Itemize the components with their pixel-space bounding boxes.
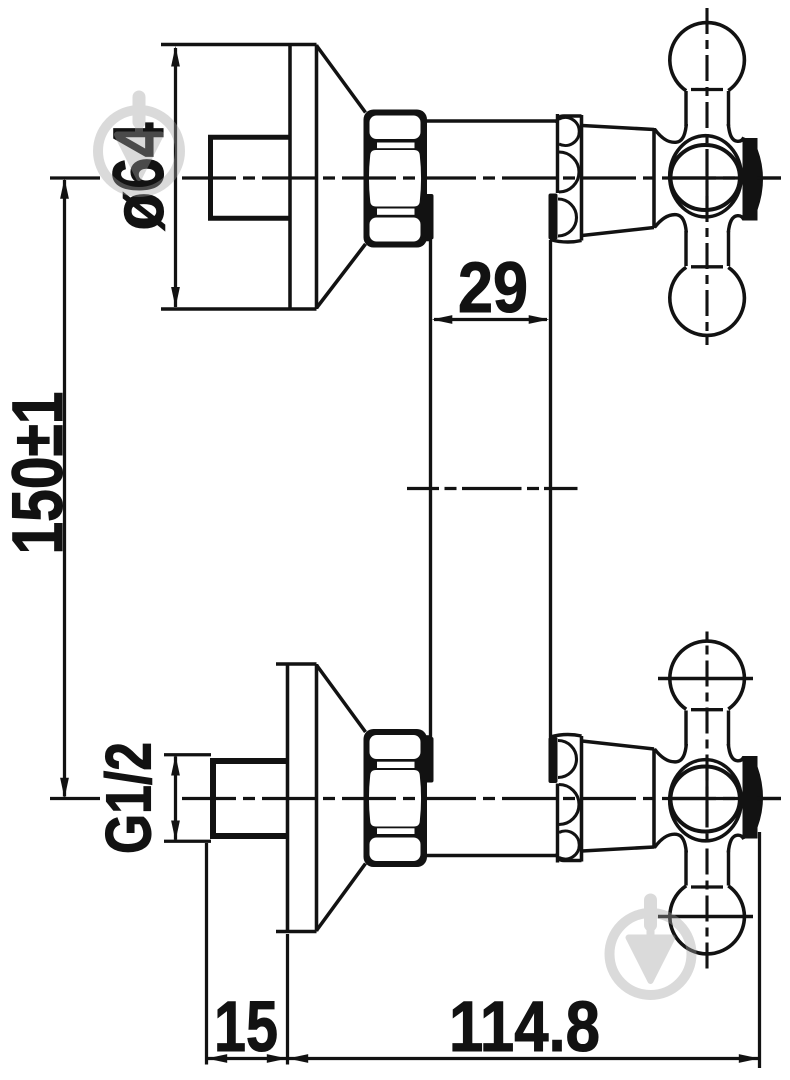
riser mid centerline dash 3 [544, 487, 578, 490]
top escutcheon front vertical [315, 45, 319, 310]
dim 15 extension line left [205, 843, 208, 1065]
dim 150 arrow up [60, 178, 69, 199]
top inlet pipe left edge [208, 137, 213, 218]
wide ball tick top (bottom handle) [658, 677, 753, 681]
top escutcheon inner vertical [288, 45, 292, 310]
dim 150 extension tick bottom [50, 797, 100, 800]
svg-text:114.8: 114.8 [449, 988, 600, 1067]
dim 114.8 extension line right [758, 832, 761, 1068]
watermark logo top-left [98, 91, 180, 193]
dim 150 dimension line [63, 180, 66, 797]
dim 114.8 arrow left [288, 1054, 309, 1063]
dim 29 arrow right [529, 315, 550, 324]
top assembly centerline dash-dot [182, 176, 781, 179]
top escutcheon cone lower slant [317, 244, 366, 308]
dim G1/2 arrow up [171, 755, 180, 776]
dim 15 arrow left [207, 1054, 228, 1063]
bottom assembly centerline dash-dot [182, 797, 781, 800]
riser mid centerline dash 1 [407, 487, 439, 490]
dim o64 arrow down [171, 287, 180, 308]
riser left edge [429, 240, 432, 738]
valve assembly top [364, 8, 764, 345]
top escutcheon top edge [161, 43, 317, 47]
dim 29 dimension line [434, 318, 547, 321]
dim G1/2 arrow down [171, 821, 180, 842]
G1/2 pipe left edge [210, 759, 216, 839]
bottom escutcheon cone lower slant [317, 864, 366, 931]
top inlet pipe lower edge [208, 216, 290, 221]
riser mid centerline dash 2 [462, 487, 522, 490]
top centerline solid segment in hub [673, 176, 740, 179]
dimension texts [0, 122, 600, 1067]
svg-text:15: 15 [214, 988, 278, 1067]
G1/2 pipe lower edge [210, 833, 288, 839]
top escutcheon cone upper slant [317, 46, 366, 113]
G1/2 pipe upper edge [210, 758, 288, 764]
dim o64 dimension line [174, 48, 177, 307]
dim 150 arrow down [60, 778, 69, 799]
dim 15/114.8 shared extension line [286, 934, 289, 1065]
bottom escutcheon plate rear vertical [286, 664, 290, 932]
svg-text:150±1: 150±1 [0, 392, 78, 555]
watermark logo bottom-right [610, 894, 692, 996]
top inlet pipe upper edge [208, 135, 290, 140]
riser mid centerline dot 1 [445, 487, 457, 490]
dim o64 arrow up [171, 46, 180, 67]
bottom centerline solid segment in hub [673, 797, 740, 800]
riser right edge [549, 240, 552, 738]
dim 15 arrow right [267, 1054, 288, 1063]
svg-text:29: 29 [458, 249, 528, 328]
wide ball tick bottom (bottom handle) [658, 915, 753, 919]
top centerline solid segment right of cap [757, 176, 781, 179]
dim 29 arrow left [432, 315, 453, 324]
dim G1/2 dimension line [174, 757, 177, 840]
valve assembly bottom (mirrored) [364, 632, 764, 969]
bottom escutcheon cone upper slant [317, 665, 366, 732]
dim o64 extension tick [50, 176, 100, 179]
svg-text:G1/2: G1/2 [93, 742, 165, 854]
bottom dimension line [207, 1057, 760, 1060]
bottom escutcheon plate front vertical [315, 664, 319, 932]
bottom escutcheon plate top edge [276, 662, 317, 666]
bottom escutcheon plate bottom edge [276, 930, 317, 934]
dim 114.8 arrow right [739, 1054, 760, 1063]
dim G1/2 extension line upper [164, 753, 211, 756]
top escutcheon bottom edge [161, 307, 317, 311]
bottom centerline solid segment right of cap [757, 797, 781, 800]
riser mid centerline dot 2 [527, 487, 539, 490]
dim G1/2 extension line lower [164, 840, 211, 843]
